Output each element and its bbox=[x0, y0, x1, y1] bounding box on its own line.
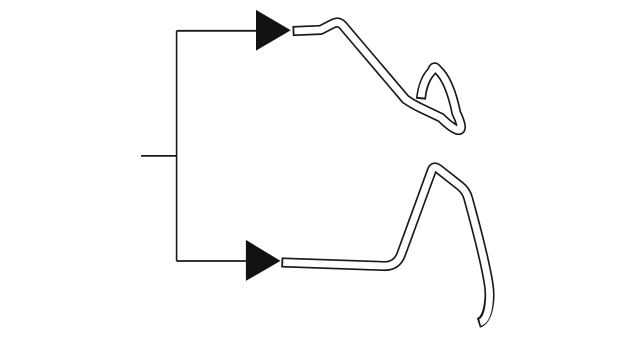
hose 2 (bottom): inner white stroke bbox=[283, 167, 489, 322]
wire: vertical bracket line bbox=[176, 31, 178, 261]
hose 1 (top): inner white stroke bbox=[294, 23, 461, 131]
wire: leader stub bbox=[141, 155, 177, 157]
arrow top bbox=[256, 10, 291, 51]
wire: bottom leader line bbox=[177, 260, 247, 262]
wire: top leader line bbox=[177, 30, 257, 32]
hose 1 (top): outer black stroke bbox=[293, 23, 461, 131]
hose 2 (bottom): outer black stroke bbox=[281, 167, 489, 322]
arrow bottom bbox=[246, 240, 281, 281]
